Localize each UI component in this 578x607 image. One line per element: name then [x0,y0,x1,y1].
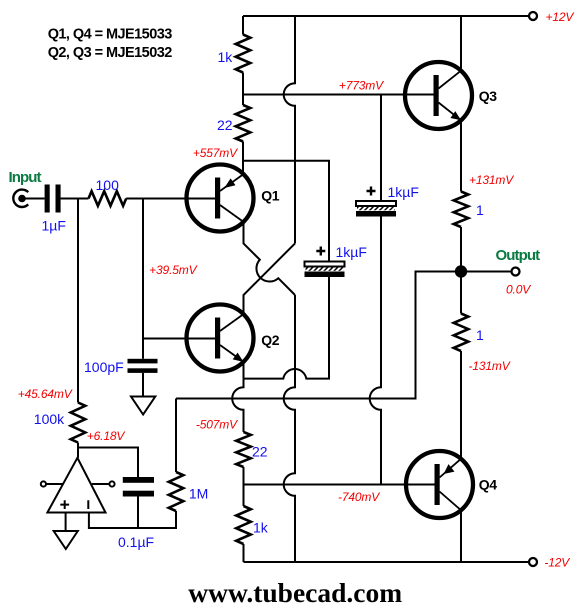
transistor Q2 (NPN MJE15032) [187,305,254,372]
svg-text:www.tubecad.com: www.tubecad.com [188,577,402,607]
wire: column from Q3 base line down to right 1kuF [380,95,382,202]
wire: Q2 base line [143,338,215,340]
resistor 1k (bottom) [236,506,251,544]
svg-text:1: 1 [476,327,484,343]
svg-text:+773mV: +773mV [339,78,384,92]
resistor 1k (top) [236,35,251,73]
wire: 1k to 22 junction segment [242,73,244,106]
wire: Q3 emitter stub down to 1 ohm [460,120,462,191]
wire: 100 ohm to Q1 base [126,198,215,200]
svg-text:100k: 100k [34,411,65,427]
resistor 100 [89,191,127,206]
svg-text:+557mV: +557mV [193,146,238,160]
ground (op-amp) [54,531,78,549]
wire: 1uF to 100 ohm [61,198,89,200]
resistor 100k [71,403,86,443]
svg-text:Input: Input [9,169,42,186]
wire: Q2 emitter column down, hopping feedback rail [232,379,243,432]
wire: -12V bottom rail [244,561,529,563]
wire: right 1kuF bottom to Q4 base line, hopping feedback rail [370,217,381,484]
wire: input jack to 1uF [22,198,45,200]
terminal: Output [512,268,520,276]
resistor 1M [169,472,184,511]
wire: Q3 collector stub to +12V rail [460,16,462,71]
svg-text:+12V: +12V [546,10,575,24]
svg-text:1: 1 [476,202,484,218]
svg-text:Output: Output [496,247,541,264]
svg-text:+6.18V: +6.18V [87,429,126,443]
terminal: -12V [529,558,537,566]
wire: Q3 base line (+773mV net) from 1k/22 junction [243,94,434,96]
resistor 22 (top) [236,105,251,142]
svg-text:100: 100 [96,177,120,193]
wire: 1 ohm to output node to lower 1 ohm [460,227,462,314]
capacitor 1kuF (right, electrolytic) [356,187,396,217]
svg-text:1µF: 1µF [42,217,66,233]
resistor 22 (bottom) [236,432,251,467]
svg-text:1k: 1k [253,520,269,536]
wire: 1M bottom to op-amp inverting input [89,511,176,528]
svg-text:1kµF: 1kµF [336,244,367,260]
wire: op-amp output / 100k junction to 0.1uF top plate [78,443,138,478]
svg-text:100pF: 100pF [84,359,124,375]
transistor Q1 (PNP MJE15033) [187,165,254,232]
wire: left 1kuF bottom plate to Q2 emitter line (hops Q1 collector column) [244,277,330,379]
node: output junction dot [455,265,467,277]
wire: Q4 base line [244,484,435,486]
wire: +12V top rail [243,15,529,17]
svg-text:Q2: Q2 [261,332,279,348]
wire: 22 to Q1 emitter [242,142,244,175]
svg-text:0.1µF: 0.1µF [118,534,154,550]
wire: feedback column from input node down to 100k [77,199,79,403]
capacitor 1kuF (left, electrolytic) [305,247,345,278]
svg-text:Q1, Q4 = MJE15033: Q1, Q4 = MJE15033 [48,26,173,42]
transistor Q4 (PNP MJE15033) [406,451,473,518]
svg-text:22: 22 [252,444,268,460]
wire: column from input line to Q2 base and 100pF [142,199,144,359]
svg-text:Q3: Q3 [479,88,497,104]
capacitor 0.1uF [123,477,154,497]
wire: Q1 collector column to -12V rail, hopping feedback rail and Q4 base line [284,295,295,562]
svg-text:1kµF: 1kµF [388,184,419,200]
wire: 0.1uF bottom plate stub [137,497,139,529]
wire: Q2 emitter stub down [243,362,245,379]
svg-text:-131mV: -131mV [469,359,511,373]
wire: op-amp noninverting input to ground [65,513,67,532]
wire: 22 to 1k junction (Q4 base node) [243,467,245,506]
svg-text:-740mV: -740mV [338,490,380,504]
svg-text:+131mV: +131mV [469,173,514,187]
svg-text:-12V: -12V [544,556,570,570]
wire: Q1 collector diagonal with hop over Q2 collector diagonal [244,222,296,295]
wire: Q2 collector diagonal to +12V rail, hopping Q3 base line [244,16,296,314]
svg-text:22: 22 [217,117,233,133]
wire: top-left column from +12V rail to 1k [242,16,244,35]
svg-text:-507mV: -507mV [196,418,238,432]
svg-text:Q4: Q4 [479,477,497,493]
op-amp U1 [41,458,115,513]
wire: lower 1 ohm to Q4 emitter [460,351,462,459]
svg-text:1M: 1M [189,486,208,502]
ground (100pF) [131,397,155,415]
resistor 1 (bottom) [454,314,469,352]
wire: Q1 emitter node to left 1kuF top plate [243,161,329,262]
svg-text:0.0V: 0.0V [506,283,531,297]
svg-text:Q2, Q3 = MJE15032: Q2, Q3 = MJE15032 [48,45,173,61]
capacitor 100pF [128,359,158,373]
wire: feedback rail from 1M up to output node and output terminal [176,272,511,399]
wire: 1M column from feedback rail [175,399,177,473]
terminal: +12V [529,12,537,20]
svg-text:+45.64mV: +45.64mV [18,387,73,401]
svg-text:+39.5mV: +39.5mV [149,263,197,277]
wire: Q4 collector to -12V rail [460,510,462,562]
wire: 100pF to ground [142,373,144,397]
transistor Q3 (NPN MJE15032) [405,62,472,129]
capacitor 1uF (input film cap) [45,185,61,213]
resistor 1 (top) [454,192,469,228]
wire: 1k bottom to -12V rail [243,544,245,562]
terminal: input jack [13,190,28,207]
svg-text:Q1: Q1 [261,188,279,204]
svg-text:1k: 1k [218,49,234,65]
